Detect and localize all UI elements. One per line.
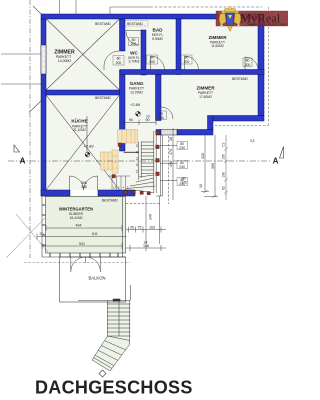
- svg-text:ZIMMER: ZIMMER: [196, 86, 215, 91]
- svg-text:200: 200: [245, 63, 251, 67]
- svg-text:200: 200: [116, 61, 122, 65]
- svg-text:38: 38: [169, 137, 173, 141]
- svg-text:3,5: 3,5: [250, 139, 255, 143]
- svg-text:320: 320: [201, 153, 205, 159]
- svg-text:494: 494: [76, 224, 82, 228]
- svg-text:A: A: [20, 157, 26, 166]
- svg-text:17,60M2: 17,60M2: [199, 95, 212, 99]
- svg-text:BESTAND: BESTAND: [102, 198, 118, 202]
- svg-text:BESTAND: BESTAND: [232, 77, 248, 81]
- svg-text:170: 170: [169, 149, 173, 155]
- svg-text:+2.89: +2.89: [84, 143, 95, 148]
- svg-text:230: 230: [179, 146, 185, 150]
- svg-text:A: A: [273, 157, 279, 166]
- svg-text:90: 90: [146, 118, 150, 122]
- svg-text:531: 531: [79, 242, 85, 246]
- svg-text:200: 200: [184, 60, 190, 64]
- svg-text:7,5: 7,5: [222, 143, 226, 148]
- svg-text:15,41M2: 15,41M2: [70, 216, 83, 220]
- svg-text:DACHGESCHOSS: DACHGESCHOSS: [35, 378, 193, 398]
- svg-text:3,70M2: 3,70M2: [129, 60, 140, 64]
- svg-text:62: 62: [222, 186, 226, 190]
- svg-text:BESTAND: BESTAND: [95, 22, 111, 26]
- svg-text:14: 14: [144, 241, 148, 245]
- svg-text:35: 35: [130, 225, 134, 229]
- svg-text:230: 230: [158, 116, 164, 120]
- svg-text:11,60M2: 11,60M2: [211, 44, 224, 48]
- svg-text:5,90M2: 5,90M2: [152, 37, 163, 41]
- svg-text:80: 80: [150, 56, 154, 60]
- svg-text:108: 108: [222, 172, 226, 178]
- svg-text:ZIMMER: ZIMMER: [208, 35, 227, 40]
- svg-text:140: 140: [149, 214, 153, 220]
- svg-text:BALKON: BALKON: [89, 276, 106, 281]
- svg-text:611: 611: [92, 232, 98, 236]
- svg-text:21,10M2: 21,10M2: [73, 128, 86, 132]
- svg-text:350: 350: [211, 163, 215, 169]
- svg-text:200: 200: [131, 42, 137, 46]
- svg-text:BESTAND: BESTAND: [127, 22, 143, 26]
- svg-text:75: 75: [138, 225, 142, 229]
- svg-text:105: 105: [222, 154, 226, 160]
- svg-text:IMMOBILIENTREUHAND GMBH: IMMOBILIENTREUHAND GMBH: [247, 23, 286, 26]
- svg-text:10: 10: [199, 184, 203, 188]
- svg-text:14,00M2: 14,00M2: [58, 59, 71, 63]
- svg-text:368: 368: [81, 185, 87, 189]
- svg-text:WC: WC: [130, 51, 138, 56]
- svg-text:KÜCHE: KÜCHE: [71, 118, 87, 124]
- svg-text:WINTERGARTEN: WINTERGARTEN: [59, 207, 93, 212]
- svg-text:200: 200: [149, 60, 155, 64]
- svg-text:163: 163: [149, 225, 155, 229]
- svg-text:275: 275: [181, 181, 187, 185]
- svg-text:20: 20: [40, 232, 44, 236]
- svg-text:BESTAND: BESTAND: [95, 96, 111, 100]
- svg-text:140: 140: [169, 161, 173, 167]
- svg-text:GANG: GANG: [130, 81, 144, 86]
- svg-text:BAD: BAD: [153, 28, 164, 33]
- svg-text:230: 230: [179, 165, 185, 169]
- svg-text:13,76M2: 13,76M2: [130, 90, 143, 94]
- svg-text:+2.89: +2.89: [130, 102, 141, 107]
- svg-text:90: 90: [129, 118, 133, 122]
- svg-text:80: 80: [117, 56, 121, 60]
- svg-text:80: 80: [185, 56, 189, 60]
